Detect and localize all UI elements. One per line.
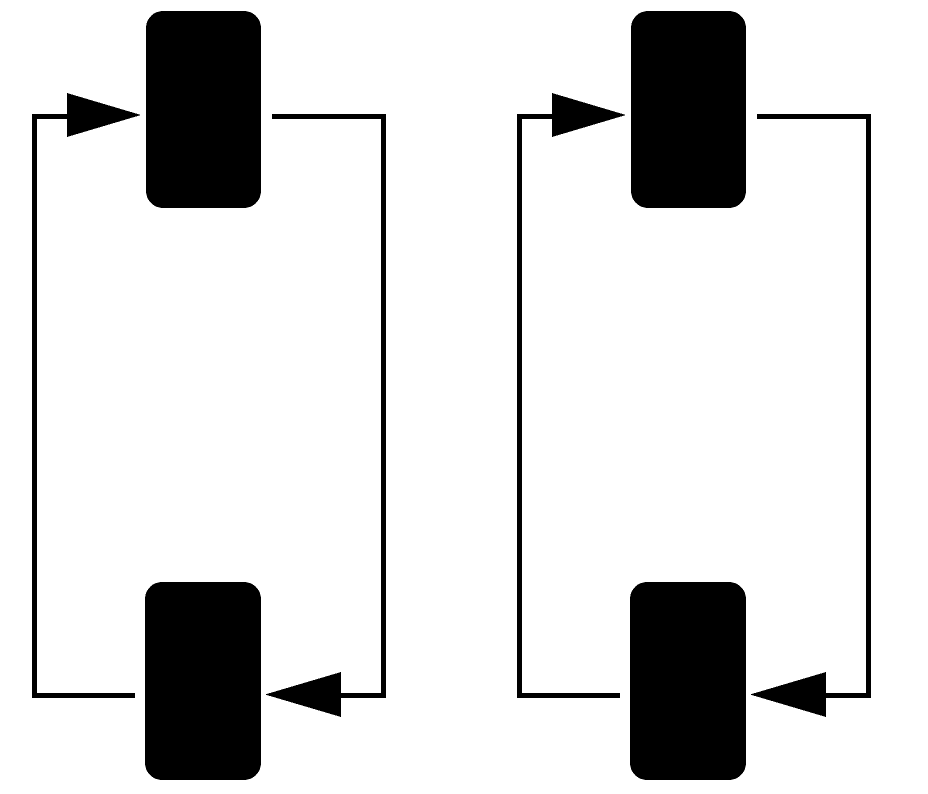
tire front-left (top-left rounded rectangle)	[146, 11, 261, 208]
wire: left loop, left vertical segment	[32, 114, 37, 698]
arrowhead into top-right tire (points right)	[552, 93, 626, 137]
tire rear-right (bottom-right rounded rectangle)	[630, 582, 746, 780]
wire: right loop, bottom horizontal segment from arrow to right vertical	[826, 693, 871, 698]
arrowhead into bottom-right tire (points left)	[750, 672, 826, 717]
arrowhead into top-left tire (points right)	[67, 93, 141, 137]
wire: right loop, top horizontal segment from left vertical to arrow	[517, 114, 557, 119]
wire: right loop, bottom horizontal segment from left vertical to tire gap	[517, 693, 620, 698]
wire: left loop, top horizontal segment from left vertical to arrow	[32, 114, 72, 119]
tire front-right (top-right rounded rectangle)	[631, 11, 746, 208]
wire: right loop, top horizontal segment from tire gap to right vertical	[757, 114, 871, 119]
wire: left loop, bottom horizontal segment from left vertical to tire gap	[32, 693, 135, 698]
wire: right loop, right vertical segment	[866, 114, 871, 698]
tire rear-left (bottom-left rounded rectangle)	[145, 582, 261, 780]
wire: left loop, top horizontal segment from tire gap to right vertical	[272, 114, 386, 119]
wire: right loop, left vertical segment	[517, 114, 522, 698]
arrowhead into bottom-left tire (points left)	[265, 672, 341, 717]
wire: left loop, bottom horizontal segment from arrow to right vertical	[341, 693, 386, 698]
wire: left loop, right vertical segment	[381, 114, 386, 698]
